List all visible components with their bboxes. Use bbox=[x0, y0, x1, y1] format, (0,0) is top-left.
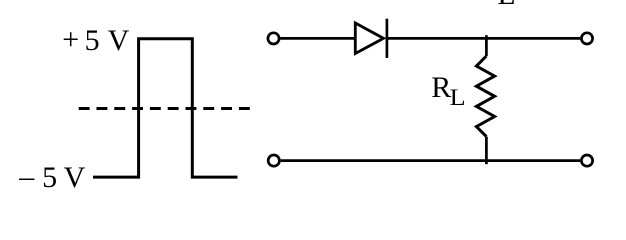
wire top-left to diode anode bbox=[280, 37, 355, 40]
svg-text:L: L bbox=[497, 0, 515, 11]
svg-text:V: V bbox=[108, 24, 130, 57]
input terminal bottom-left bbox=[268, 155, 279, 166]
diode D1 triangle bbox=[355, 23, 383, 54]
label -5 V bbox=[18, 160, 85, 194]
svg-text:L: L bbox=[450, 85, 466, 110]
resistor RL zigzag bbox=[476, 56, 494, 137]
label RL bbox=[431, 71, 465, 110]
node junction resistor top lead bbox=[485, 35, 488, 56]
svg-text:+: + bbox=[62, 23, 79, 56]
zero reference dashed line bbox=[79, 107, 250, 110]
input terminal top-left bbox=[268, 33, 279, 44]
output terminal top-right bbox=[581, 33, 592, 44]
svg-text:V: V bbox=[64, 161, 86, 194]
label +5 V bbox=[62, 23, 129, 57]
output terminal bottom-right bbox=[581, 155, 592, 166]
waveform square pulse bbox=[93, 39, 238, 177]
svg-text:R: R bbox=[431, 71, 451, 104]
svg-text:5: 5 bbox=[85, 24, 100, 57]
wire bottom bbox=[281, 159, 581, 162]
wire diode cathode to output terminal bbox=[387, 37, 580, 40]
svg-text:5: 5 bbox=[42, 161, 57, 194]
diode D1 cathode bar bbox=[386, 19, 389, 58]
resistor RL bottom lead bbox=[485, 137, 488, 165]
svg-text:–: – bbox=[18, 160, 35, 193]
